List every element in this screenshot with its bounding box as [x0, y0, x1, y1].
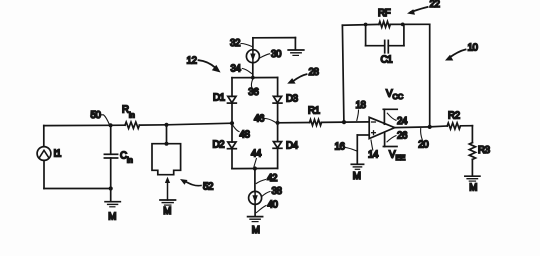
wire: feedback top right segment	[390, 23, 430, 25]
wire: bridge right upper	[277, 78, 279, 97]
wire: bridge left lower	[231, 149, 233, 169]
svg-text:18: 18	[356, 100, 367, 111]
svg-text:D3: D3	[286, 94, 299, 105]
node junction dot for sensor 52 branch	[164, 123, 168, 127]
node 18 junction dot	[342, 120, 346, 124]
label 34 with leader	[231, 64, 252, 75]
wire: bridge right between D3 and node 46	[277, 103, 279, 123]
ground M below sensor arrow	[160, 200, 176, 217]
ground M at op-amp + input	[351, 164, 363, 182]
label 12 with arrow	[187, 56, 221, 73]
node 46 junction dot	[276, 121, 280, 125]
label 42 with leader	[256, 173, 277, 184]
label 30 with leader	[260, 49, 282, 60]
label 32 with leader	[230, 38, 252, 49]
svg-text:26: 26	[397, 131, 408, 142]
arrow into sensor 52 from ground	[165, 177, 170, 200]
diode D4	[273, 142, 282, 149]
wire: non-inverting input to ground	[357, 135, 369, 164]
ground M below Cin	[105, 189, 120, 223]
label 22 with arrow	[407, 0, 440, 15]
wire: bridge right lower	[277, 148, 279, 168]
ground M below source 38	[248, 217, 263, 237]
svg-text:M: M	[163, 206, 171, 217]
svg-text:M: M	[108, 212, 116, 223]
wire: feedback left vertical	[342, 25, 344, 122]
op-amp U1 triangle	[369, 117, 395, 138]
wire: feedback top left segment	[342, 23, 379, 26]
node dot RF/C1 left	[364, 23, 368, 27]
node 36 junction dot	[251, 76, 255, 80]
label 38 with leader	[262, 186, 283, 197]
wire: feedback right vertical	[429, 24, 431, 127]
op-amp VCC pin 24	[383, 109, 397, 124]
capacitor C1 branch	[366, 24, 404, 52]
svg-text:R1: R1	[308, 106, 320, 117]
svg-text:38: 38	[272, 186, 283, 197]
wire: bridge top	[232, 77, 278, 79]
svg-text:RF: RF	[378, 8, 391, 19]
node dot RF/C1 right	[401, 23, 405, 27]
svg-text:R3: R3	[478, 145, 491, 156]
svg-text:C: C	[120, 151, 127, 162]
label R2	[448, 111, 460, 122]
label VCC	[386, 89, 404, 102]
wire: node 18 to op-amp inverting input	[344, 121, 369, 123]
svg-text:R2: R2	[448, 111, 460, 122]
diode D1	[228, 96, 237, 103]
label 16 with leader	[335, 142, 357, 153]
label 50 with leader	[91, 110, 110, 125]
label 26 with leader	[387, 131, 408, 142]
svg-text:24: 24	[397, 116, 408, 127]
svg-text:48: 48	[240, 130, 251, 141]
label 18 with leader	[356, 100, 367, 120]
label R1	[308, 106, 320, 117]
label 24 with leader	[387, 113, 408, 127]
label 52 with arrow	[180, 179, 213, 193]
label C1	[381, 55, 393, 66]
resistor R3	[469, 143, 475, 160]
current source 38	[249, 169, 262, 217]
wire: op-amp output	[395, 126, 430, 129]
label D2	[213, 140, 225, 151]
svg-text:10: 10	[468, 43, 479, 54]
svg-text:M: M	[353, 171, 361, 182]
label VEE	[389, 150, 405, 163]
wire: bridge right between node 46 and D4	[277, 123, 279, 142]
label 36 with leader	[248, 79, 259, 98]
ground M below R3	[465, 176, 480, 193]
label I1	[54, 149, 61, 160]
label 20 with leader	[418, 129, 429, 151]
svg-text:C1: C1	[381, 55, 393, 66]
svg-text:44: 44	[251, 149, 262, 160]
svg-text:52: 52	[203, 182, 213, 193]
capacitor Cin	[104, 125, 117, 188]
svg-text:28: 28	[309, 67, 320, 78]
label D3	[286, 94, 299, 105]
label Rin	[122, 105, 135, 120]
node 20 junction dot	[428, 125, 432, 129]
svg-text:D2: D2	[213, 140, 225, 151]
wire: bridge left between node 48 and D2	[231, 123, 233, 142]
wire: bridge left between D1 and node 48	[231, 103, 233, 123]
diode D3	[273, 96, 282, 103]
svg-text:36: 36	[248, 87, 259, 98]
current source 30	[246, 38, 259, 78]
svg-text:M: M	[252, 225, 260, 236]
ground at top right of bridge	[288, 50, 304, 55]
svg-text:50: 50	[91, 110, 102, 121]
label 10 with arrow	[445, 43, 479, 61]
wire: input rail left segment	[44, 124, 111, 126]
diode D2	[228, 142, 237, 149]
resistor R2	[447, 123, 472, 129]
wire: corner down to R3	[471, 126, 473, 143]
label 14 with leader	[368, 140, 379, 161]
label 46 with leader	[254, 114, 276, 125]
resistor RF	[379, 22, 390, 28]
wire: from source 30 to top ground	[253, 38, 296, 50]
resistor Rin	[111, 122, 167, 128]
label 44 with leader	[251, 149, 262, 167]
svg-text:34: 34	[231, 64, 242, 75]
svg-text:EE: EE	[396, 153, 406, 162]
label 48 with leader	[233, 126, 251, 141]
node 48 junction dot	[230, 121, 234, 125]
svg-text:46: 46	[254, 114, 265, 125]
svg-text:M: M	[469, 183, 477, 194]
svg-text:16: 16	[335, 142, 346, 153]
wire: bottom of input loop	[44, 188, 111, 190]
svg-text:R: R	[122, 105, 129, 116]
sensor 52 (transducer box)	[152, 125, 181, 175]
label Cin	[120, 151, 133, 165]
label D4	[286, 141, 299, 152]
svg-text:CC: CC	[393, 92, 404, 101]
svg-text:in: in	[129, 111, 135, 120]
op-amp VEE pin 26	[383, 132, 397, 146]
wire: bridge left upper	[231, 78, 233, 97]
wire: rail to bridge node 48	[167, 123, 233, 125]
svg-text:12: 12	[187, 56, 197, 67]
svg-text:40: 40	[268, 200, 279, 211]
svg-text:14: 14	[368, 150, 379, 161]
svg-text:32: 32	[230, 38, 240, 49]
svg-text:20: 20	[418, 139, 429, 150]
node 44 junction dot	[253, 166, 257, 170]
label 40 with leader	[257, 200, 279, 213]
svg-text:42: 42	[267, 173, 277, 184]
svg-text:in: in	[127, 156, 133, 165]
svg-text:30: 30	[271, 49, 282, 60]
wire: bridge bottom	[232, 167, 278, 169]
wire: output to R2	[430, 125, 448, 128]
label D1	[213, 93, 225, 104]
label 28 with arrow	[287, 67, 319, 84]
label RF	[378, 8, 391, 19]
node junction dot at loop bottom	[109, 186, 113, 190]
svg-text:I1: I1	[54, 149, 61, 160]
current source I1	[37, 126, 51, 189]
label R3	[478, 145, 491, 156]
svg-text:D4: D4	[286, 141, 299, 152]
svg-text:D1: D1	[213, 93, 225, 104]
resistor R1	[278, 120, 344, 126]
wire: R3 to ground	[471, 159, 473, 176]
svg-text:22: 22	[430, 0, 440, 10]
node 50 junction dot	[109, 123, 113, 127]
